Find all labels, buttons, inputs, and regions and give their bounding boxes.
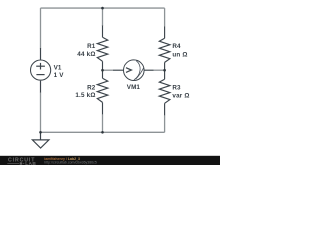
voltage source V1 xyxy=(30,48,50,93)
node junction top middle xyxy=(101,7,104,10)
svg-text:44 kΩ: 44 kΩ xyxy=(77,51,95,58)
svg-text:R1: R1 xyxy=(87,43,96,50)
svg-text:R3: R3 xyxy=(172,85,181,92)
wire bottom rail xyxy=(41,131,165,133)
svg-text:http://circuitlab.com/c6w36y38: http://circuitlab.com/c6w36y386c5 xyxy=(44,160,97,164)
resistor R4 xyxy=(159,27,170,71)
resistor R3 xyxy=(159,70,170,115)
wire top rail xyxy=(41,7,165,9)
node junction R1-R2-VM1 xyxy=(101,69,104,72)
ground xyxy=(32,132,49,148)
wire right vertical upper xyxy=(164,8,166,26)
svg-text:1 V: 1 V xyxy=(54,72,65,79)
wire left vertical upper xyxy=(40,8,42,48)
svg-text:R2: R2 xyxy=(87,84,96,91)
svg-text:1.5 kΩ: 1.5 kΩ xyxy=(75,92,95,99)
node junction bottom middle xyxy=(101,131,104,134)
node junction ground xyxy=(39,131,42,134)
logo square xyxy=(20,162,22,164)
wire right vertical lower xyxy=(164,115,166,132)
svg-text:LAB: LAB xyxy=(25,161,36,165)
voltmeter VM1 xyxy=(113,60,154,81)
svg-text:R4: R4 xyxy=(172,43,181,50)
node junction R4-R3-VM1 xyxy=(163,69,166,72)
logo dash line xyxy=(7,163,24,165)
footer bar xyxy=(0,156,220,165)
wire VM1 to right vertical xyxy=(154,69,165,71)
svg-text:un Ω: un Ω xyxy=(172,51,187,58)
svg-text:V1: V1 xyxy=(54,65,62,72)
resistor R1 xyxy=(97,26,108,71)
svg-text:var Ω: var Ω xyxy=(172,92,189,99)
wire middle vertical upper xyxy=(102,8,104,26)
svg-text:VM1: VM1 xyxy=(127,84,141,91)
wire middle to VM1 xyxy=(103,69,114,71)
wire left vertical lower xyxy=(40,92,42,132)
wire middle vertical lower xyxy=(102,114,104,132)
resistor R2 xyxy=(97,70,108,114)
